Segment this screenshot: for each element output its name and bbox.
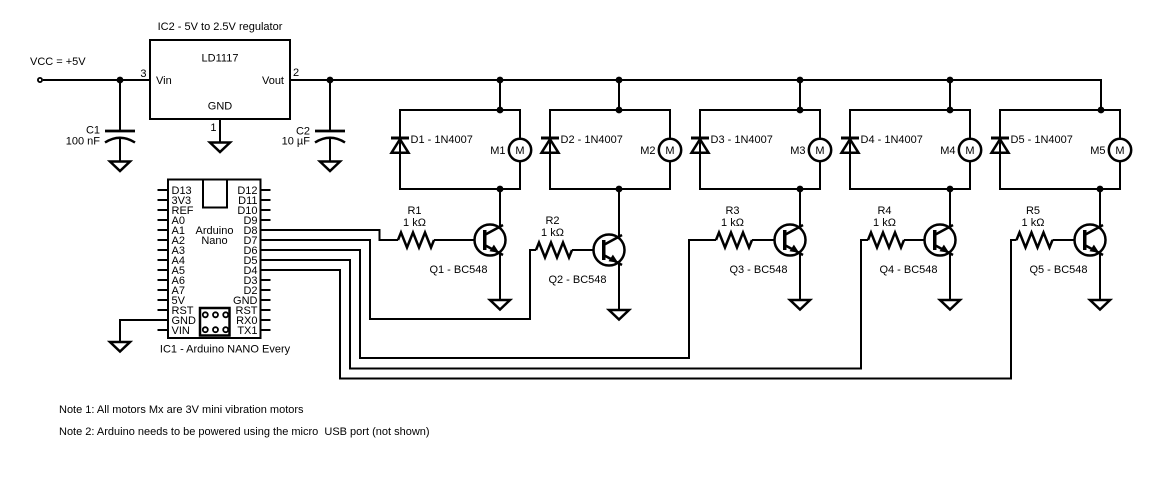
svg-text:Q2 - BC548: Q2 - BC548 <box>548 274 606 286</box>
svg-text:M4: M4 <box>940 145 955 157</box>
svg-text:1 kΩ: 1 kΩ <box>403 217 426 229</box>
svg-text:IC2 - 5V to 2.5V regulator: IC2 - 5V to 2.5V regulator <box>158 21 283 33</box>
svg-text:M: M <box>815 145 824 157</box>
svg-text:IC1 - Arduino NANO Every: IC1 - Arduino NANO Every <box>160 344 291 356</box>
svg-text:Nano: Nano <box>201 235 227 247</box>
svg-text:M5: M5 <box>1090 145 1105 157</box>
svg-text:100 nF: 100 nF <box>66 136 101 148</box>
svg-text:GND: GND <box>208 101 233 113</box>
svg-text:1 kΩ: 1 kΩ <box>873 217 896 229</box>
svg-text:D2 - 1N4007: D2 - 1N4007 <box>561 134 623 146</box>
svg-text:Vin: Vin <box>156 75 172 87</box>
svg-text:LD1117: LD1117 <box>202 53 239 65</box>
svg-text:M3: M3 <box>790 145 805 157</box>
svg-text:M: M <box>665 145 674 157</box>
svg-text:2: 2 <box>293 67 299 79</box>
svg-text:Vout: Vout <box>262 75 284 87</box>
svg-text:VIN: VIN <box>172 325 190 337</box>
svg-text:1 kΩ: 1 kΩ <box>541 227 564 239</box>
svg-text:M: M <box>1115 145 1124 157</box>
svg-text:Q5 - BC548: Q5 - BC548 <box>1029 264 1087 276</box>
svg-text:1 kΩ: 1 kΩ <box>721 217 744 229</box>
svg-text:D3 - 1N4007: D3 - 1N4007 <box>711 134 773 146</box>
svg-text:Note 1: All motors Mx are 3V m: Note 1: All motors Mx are 3V mini vibrat… <box>59 404 304 416</box>
svg-text:D4 - 1N4007: D4 - 1N4007 <box>861 134 923 146</box>
svg-text:M1: M1 <box>490 145 505 157</box>
svg-text:Q4 - BC548: Q4 - BC548 <box>879 264 937 276</box>
svg-text:1 kΩ: 1 kΩ <box>1022 217 1045 229</box>
svg-text:R1: R1 <box>407 205 421 217</box>
svg-text:R5: R5 <box>1026 205 1040 217</box>
svg-text:Q1 - BC548: Q1 - BC548 <box>429 264 487 276</box>
svg-text:Note 2: Arduino needs to be po: Note 2: Arduino needs to be powered usin… <box>59 426 430 438</box>
svg-text:10 µF: 10 µF <box>282 136 311 148</box>
svg-text:D1 - 1N4007: D1 - 1N4007 <box>411 134 473 146</box>
svg-text:M: M <box>515 145 524 157</box>
svg-text:TX1: TX1 <box>237 325 257 337</box>
svg-text:1: 1 <box>210 122 216 134</box>
svg-text:R2: R2 <box>545 215 559 227</box>
svg-text:R4: R4 <box>877 205 891 217</box>
svg-text:Q3 - BC548: Q3 - BC548 <box>729 264 787 276</box>
svg-text:M2: M2 <box>640 145 655 157</box>
svg-text:VCC = +5V: VCC = +5V <box>30 56 86 68</box>
svg-text:D5 - 1N4007: D5 - 1N4007 <box>1011 134 1073 146</box>
svg-text:M: M <box>965 145 974 157</box>
svg-text:R3: R3 <box>725 205 739 217</box>
svg-text:3: 3 <box>140 68 146 80</box>
